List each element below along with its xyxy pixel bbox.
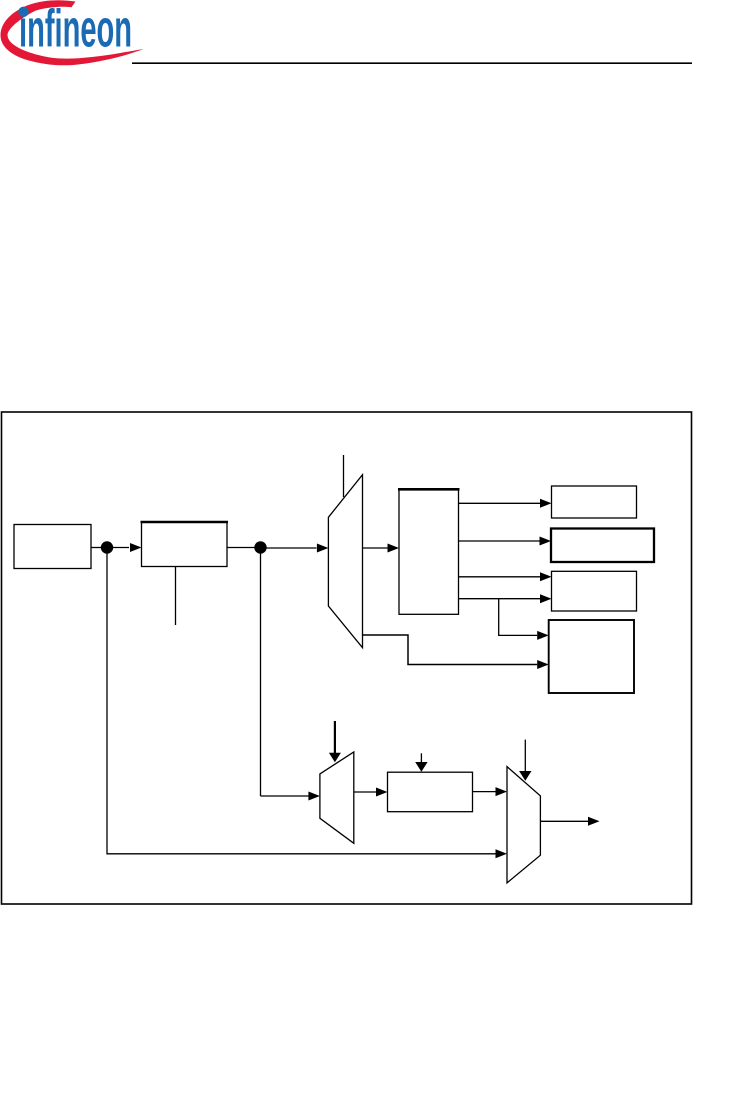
Infineon logo red swoosh <box>1 0 144 65</box>
wire box3 to mux3 <box>473 791 496 793</box>
box shifter <box>388 772 473 812</box>
wire bigbox out4 <box>459 598 541 600</box>
arrowhead into box3 left <box>376 788 388 797</box>
mux3 trapezoid <box>507 767 540 883</box>
branch wire down to boxD <box>499 599 538 636</box>
wire mux1 to bigbox <box>363 547 388 549</box>
wire node2 to mux1 <box>261 547 317 549</box>
arrowhead mux2 top select <box>329 753 341 763</box>
arrowhead into boxB <box>540 537 552 546</box>
wire mux2 to box3 <box>354 791 376 793</box>
box stage2 <box>142 522 228 567</box>
mux3 output wire <box>540 820 588 822</box>
arrowhead into boxD lower <box>537 660 549 669</box>
arrowhead into mux3 lower <box>496 849 508 858</box>
node2 junction dot <box>254 541 266 553</box>
arrowhead mux3 top select <box>519 771 531 781</box>
box out C <box>552 571 637 611</box>
big box bold top edge <box>398 488 460 491</box>
Infineon logo wordmark <box>19 0 132 58</box>
arrowhead into boxD upper <box>537 631 549 640</box>
arrowhead into boxA <box>540 499 552 508</box>
box3 top arrow line <box>420 753 422 762</box>
box input <box>14 525 91 569</box>
header rule <box>132 62 692 64</box>
big pipeline box <box>399 489 459 614</box>
svg-text:ınfineon: ınfineon <box>19 0 132 58</box>
mux1 select line <box>343 455 345 497</box>
box out D bold <box>549 620 634 693</box>
arrowhead box3 top <box>415 762 427 772</box>
wire node1 to box2 arrow <box>107 547 129 549</box>
stub below box2 <box>175 567 177 626</box>
arrowhead into bigbox <box>388 544 400 553</box>
arrowhead into box2 <box>130 543 142 552</box>
mux2 top select arrow line <box>334 721 336 754</box>
wire box1 to node1 <box>91 547 107 549</box>
box stage2 bold top edge <box>141 521 229 524</box>
box out B bold <box>551 529 654 563</box>
wire bigbox out1 <box>459 502 541 504</box>
node2 vertical wire down <box>260 548 262 797</box>
mux1 trapezoid <box>328 475 362 648</box>
arrowhead into boxC lower <box>540 594 552 603</box>
mux1 bottom route to boxD <box>363 635 538 665</box>
wire to mux2 <box>261 795 309 797</box>
node1 long feedback wire <box>107 548 496 854</box>
wire bigbox out2 <box>459 540 540 542</box>
mux2 trapezoid <box>320 752 354 843</box>
arrowhead into mux2 left <box>308 792 320 801</box>
arrowhead into mux1 <box>317 544 329 553</box>
diagram frame <box>2 412 692 904</box>
Infineon logo blue i-dot <box>18 7 28 17</box>
arrowhead into mux3 upper <box>496 787 508 796</box>
mux3 top select arrow line <box>524 740 526 771</box>
wire box2 to node2 <box>227 547 261 549</box>
wire bigbox out3 <box>459 576 541 578</box>
arrowhead into boxC upper <box>540 572 552 581</box>
arrowhead mux3 output <box>588 817 600 826</box>
box out A <box>552 486 637 518</box>
node1 junction dot <box>101 541 113 553</box>
